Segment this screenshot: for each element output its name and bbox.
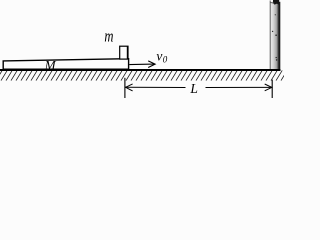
block m thick right edge bbox=[127, 46, 129, 59]
svg-text:M: M bbox=[44, 58, 57, 73]
wall speckles bbox=[272, 14, 278, 61]
wall top cap bbox=[273, 0, 279, 5]
block M bbox=[3, 59, 128, 69]
wall left edge bbox=[269, 1, 271, 71]
dimension line L with arrows bbox=[125, 84, 271, 91]
block m bbox=[120, 46, 128, 59]
svg-text:m: m bbox=[104, 28, 113, 46]
ground hatching bbox=[0, 70, 287, 80]
svg-text:0: 0 bbox=[163, 54, 168, 64]
svg-text:L: L bbox=[189, 81, 198, 96]
svg-text:v: v bbox=[156, 49, 162, 64]
dimension extension line right bbox=[271, 80, 273, 98]
wall bbox=[270, 2, 280, 71]
ground line bbox=[0, 69, 281, 71]
dimension extension line left bbox=[124, 78, 126, 98]
wall top edge bbox=[270, 1, 274, 4]
velocity arrow v0 bbox=[129, 61, 155, 68]
